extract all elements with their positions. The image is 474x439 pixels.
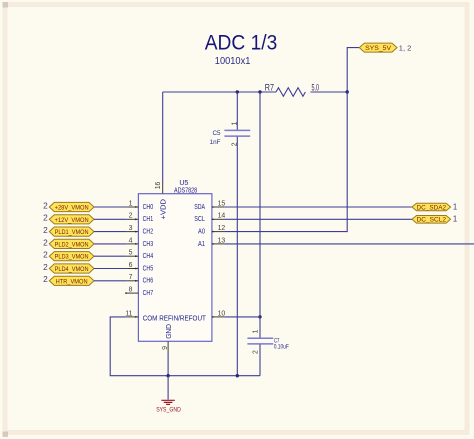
svg-text:4: 4 (129, 237, 133, 244)
port SYS_5V (359, 43, 411, 52)
port DC_SCL2 (412, 215, 457, 224)
pin 16 +VDD stub (155, 181, 167, 219)
wire to ground symbol (167, 376, 169, 400)
pin 14 SCL (194, 213, 225, 224)
wire A1 off sheet (224, 243, 474, 245)
pin 6 CH5 (126, 262, 153, 273)
wire pin11 COM to ground rail (110, 317, 168, 376)
wire C5 upper (236, 92, 238, 130)
svg-text:+VDD: +VDD (160, 199, 167, 220)
svg-text:DC_SCL2: DC_SCL2 (417, 217, 447, 224)
svg-text:CH4: CH4 (143, 253, 154, 260)
pin 9 GND stub (162, 324, 173, 354)
junction at C5 top (236, 90, 239, 93)
svg-text:1nF: 1nF (210, 139, 221, 146)
svg-text:ADS7828: ADS7828 (174, 187, 197, 194)
svg-text:PLD3_VMON: PLD3_VMON (55, 254, 89, 261)
svg-text:5.0: 5.0 (312, 82, 320, 93)
pin 3 CH2 (126, 225, 153, 236)
svg-text:6: 6 (129, 262, 133, 269)
junction at pin10 wire (258, 315, 261, 318)
pin 11 COM (125, 310, 206, 322)
IC U5 ADS7828 body (138, 180, 212, 341)
wire GND pin to rail (167, 354, 169, 376)
svg-text:14: 14 (218, 213, 226, 220)
svg-text:+12V_VMON: +12V_VMON (55, 217, 89, 224)
svg-text:HTR_VMON: HTR_VMON (56, 278, 88, 285)
svg-text:2: 2 (43, 237, 48, 247)
ground SYS_GND (156, 400, 181, 413)
svg-text:CH7: CH7 (143, 290, 154, 297)
wire pin10 to C7 (224, 316, 260, 318)
svg-text:U5: U5 (179, 180, 188, 187)
svg-text:12: 12 (218, 225, 226, 232)
svg-text:10010x1: 10010x1 (215, 55, 251, 67)
svg-text:2: 2 (43, 274, 48, 284)
junction at C7 top (258, 90, 261, 93)
svg-text:C5: C5 (212, 130, 221, 137)
svg-text:PLD1_VMON: PLD1_VMON (55, 229, 89, 236)
svg-text:SYS_GND: SYS_GND (156, 407, 181, 414)
svg-text:5: 5 (129, 250, 133, 257)
wire pin10 junction to C7 (259, 317, 261, 338)
pin 13 A1 (198, 237, 225, 248)
svg-text:+28V_VMON: +28V_VMON (55, 205, 89, 212)
svg-text:SYS_5V: SYS_5V (365, 45, 392, 52)
capacitor C7 (247, 329, 289, 354)
wire C7 lower to ground rail (259, 344, 261, 375)
svg-text:2: 2 (43, 250, 48, 260)
port PLD1_VMON (43, 225, 94, 236)
svg-text:SDA: SDA (194, 204, 205, 211)
svg-text:0.10uF: 0.10uF (274, 344, 289, 351)
wire SDA to port (224, 206, 412, 208)
subtitle 10010x1 (215, 55, 251, 67)
port PLD2_VMON (43, 237, 94, 248)
pin 4 CH3 (126, 237, 153, 248)
svg-text:1: 1 (453, 202, 457, 211)
svg-text:CH6: CH6 (143, 278, 154, 285)
svg-text:1: 1 (231, 122, 238, 126)
svg-text:A0: A0 (198, 229, 205, 236)
wire VDD top horizontal (163, 91, 348, 93)
pin 2 CH1 (126, 213, 153, 224)
svg-text:7: 7 (129, 274, 133, 281)
wire PLD3_VMON to pin 5 (94, 255, 126, 257)
svg-text:2: 2 (253, 350, 260, 354)
svg-text:1: 1 (453, 215, 457, 224)
svg-text:8: 8 (129, 287, 133, 294)
svg-text:2: 2 (43, 262, 48, 272)
svg-text:PLD2_VMON: PLD2_VMON (55, 241, 89, 248)
port +12V_VMON (43, 213, 94, 224)
wire +12V_VMON to pin 2 (94, 218, 126, 220)
capacitor C5 (210, 122, 251, 147)
svg-text:PLD4_VMON: PLD4_VMON (55, 266, 89, 273)
svg-text:1: 1 (253, 329, 260, 333)
svg-text:COM REFIN/REFOUT: COM REFIN/REFOUT (143, 314, 206, 323)
wire ground rail (168, 375, 260, 377)
wire PLD4_VMON to pin 6 (94, 268, 126, 270)
svg-text:CH0: CH0 (143, 204, 154, 211)
wire VDD vertical to pin 16 (162, 92, 164, 182)
junction at R7 right (346, 90, 349, 93)
svg-text:16: 16 (155, 181, 162, 189)
port +28V_VMON (43, 200, 94, 211)
svg-text:2: 2 (129, 213, 133, 220)
svg-text:CH5: CH5 (143, 265, 154, 272)
svg-text:13: 13 (218, 237, 226, 244)
pin 5 CH4 (126, 250, 153, 261)
svg-text:9: 9 (162, 346, 169, 350)
port HTR_VMON (43, 274, 94, 285)
wire PLD1_VMON to pin 3 (94, 231, 126, 233)
junction GND pin at rail (166, 374, 169, 377)
svg-text:GND: GND (166, 324, 173, 339)
wire PLD2_VMON to pin 4 (94, 243, 126, 245)
wire SCL to port (224, 218, 412, 220)
resistor R7 (265, 82, 319, 96)
svg-text:CH3: CH3 (143, 241, 154, 248)
wire +28V_VMON to pin 1 (94, 206, 126, 208)
pin 8 CH7 (no connect) (125, 287, 153, 298)
pin 15 SDA (194, 200, 225, 211)
svg-text:CH1: CH1 (143, 216, 154, 223)
svg-text:DC_SDA2: DC_SDA2 (417, 204, 447, 211)
pin 7 CH6 (126, 274, 153, 285)
pin 1 CH0 (126, 200, 153, 211)
svg-text:1: 1 (129, 200, 133, 207)
svg-text:3: 3 (129, 225, 133, 232)
pin 12 A0 (198, 225, 225, 236)
svg-text:1, 2: 1, 2 (399, 43, 412, 52)
svg-text:11: 11 (125, 310, 132, 317)
svg-text:ADC 1/3: ADC 1/3 (205, 32, 278, 55)
svg-text:10: 10 (218, 310, 226, 317)
svg-text:CH2: CH2 (143, 229, 154, 236)
svg-text:SCL: SCL (194, 216, 205, 223)
wire C5 lower to ground rail (236, 137, 238, 376)
svg-text:15: 15 (218, 200, 226, 207)
wire to SYS_5V port (347, 48, 359, 92)
svg-text:2: 2 (43, 225, 48, 235)
svg-text:2: 2 (43, 213, 48, 223)
pin 10 REFIN/REFOUT (212, 310, 226, 317)
port PLD4_VMON (43, 262, 94, 273)
wire HTR_VMON to pin 7 (94, 280, 126, 282)
junction C5 at rail (236, 374, 239, 377)
svg-text:R7: R7 (265, 82, 274, 93)
wire A0 to R7 junction (224, 92, 347, 232)
title ADC 1/3 (205, 32, 278, 55)
port PLD3_VMON (43, 250, 94, 261)
svg-text:2: 2 (43, 200, 48, 210)
port DC_SDA2 (412, 202, 457, 211)
wire C7 net vertical (VDD to pin10) (259, 92, 261, 317)
svg-text:A1: A1 (198, 241, 205, 248)
